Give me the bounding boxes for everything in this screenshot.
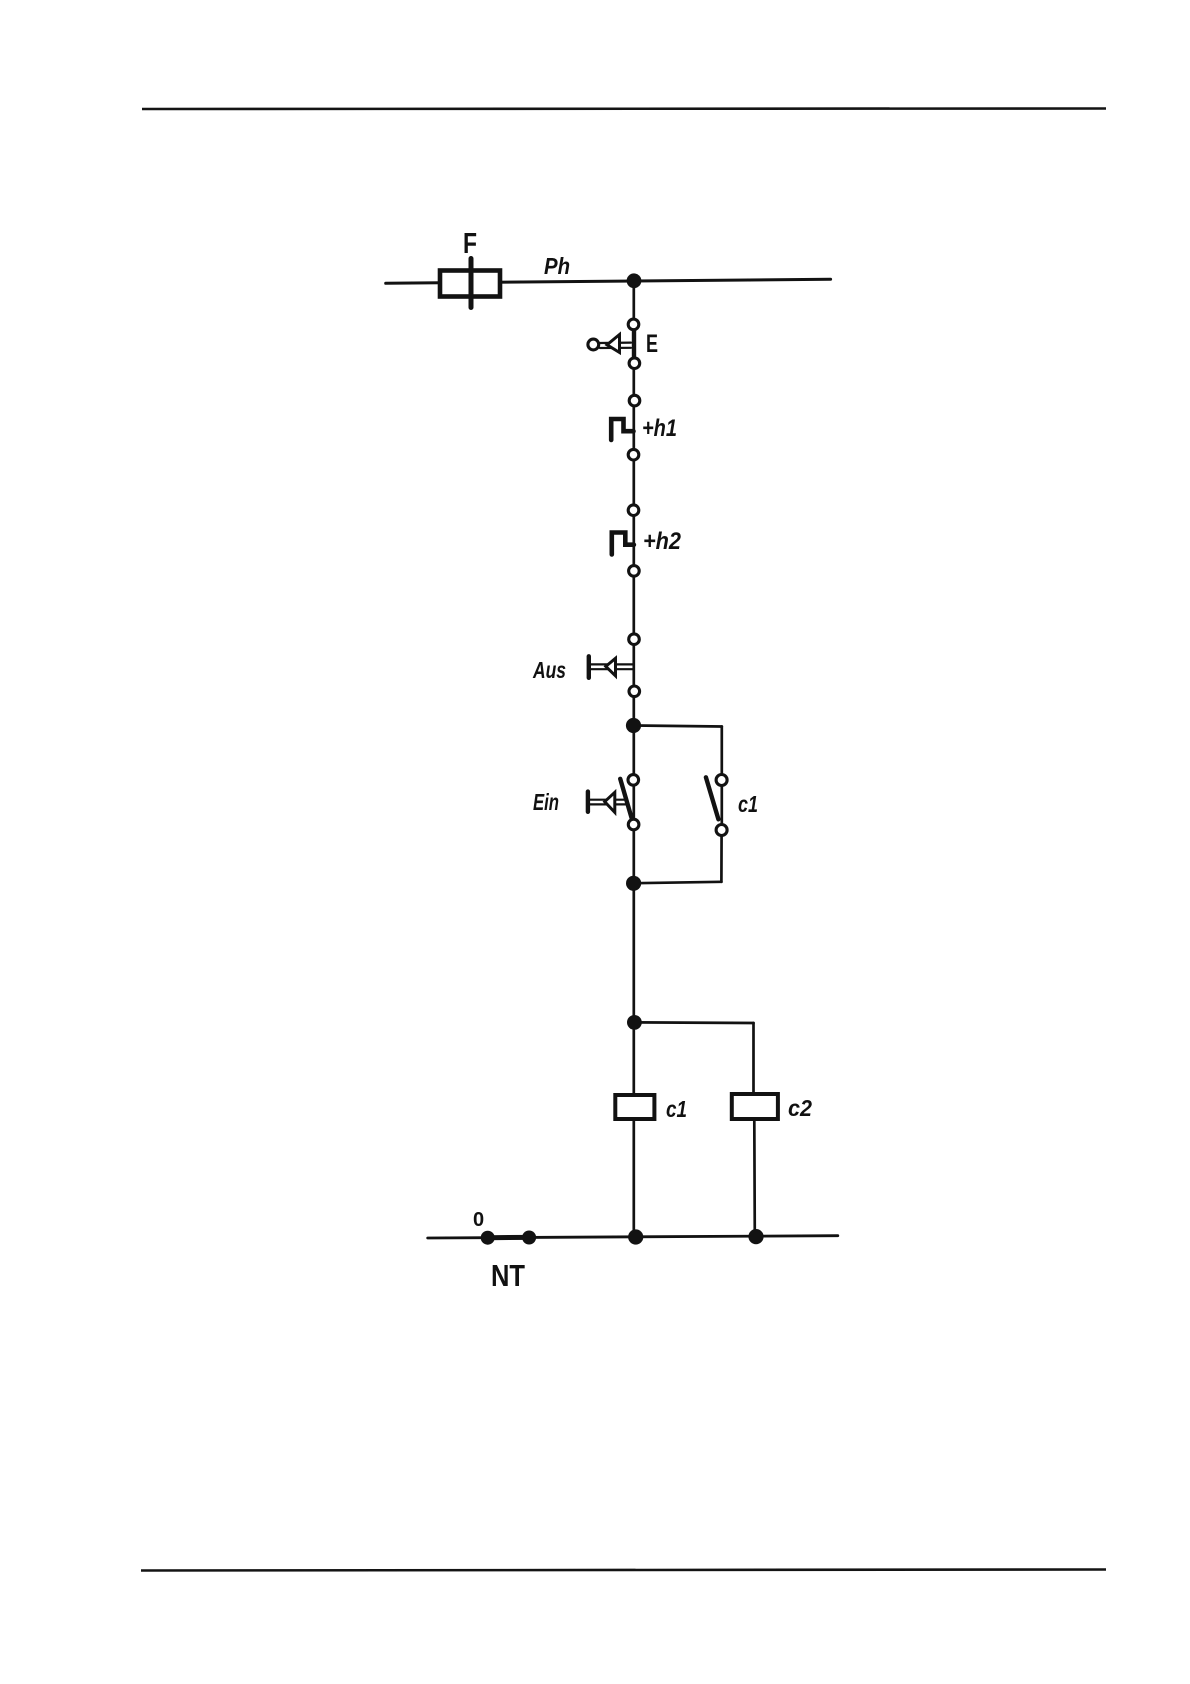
svg-text:c1: c1 — [666, 1096, 687, 1122]
svg-text:F: F — [463, 228, 477, 260]
svg-text:c2: c2 — [788, 1095, 812, 1121]
svg-text:Ein: Ein — [533, 789, 559, 815]
svg-text:Aus: Aus — [532, 657, 566, 683]
svg-text:+h1: +h1 — [642, 415, 677, 442]
svg-text:+h2: +h2 — [643, 528, 682, 555]
svg-text:E: E — [646, 330, 658, 358]
svg-text:0: 0 — [473, 1209, 484, 1231]
svg-text:Ph: Ph — [544, 253, 570, 279]
svg-text:NT: NT — [491, 1258, 525, 1293]
svg-text:c1: c1 — [738, 791, 758, 817]
